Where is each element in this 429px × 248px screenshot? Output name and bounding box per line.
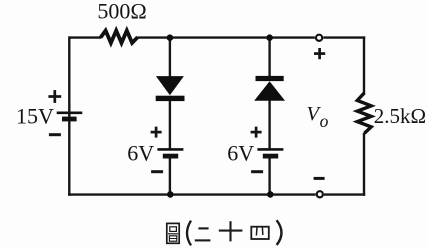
wire branch2 lower (6V to bottom) xyxy=(268,157,270,195)
diode D2 triangle (pointing up) xyxy=(255,82,284,100)
battery V3 6V short plate xyxy=(263,154,278,159)
node junction dot top branch1 xyxy=(167,34,174,41)
wire bottom-right segment xyxy=(324,193,365,195)
svg-text:6V: 6V xyxy=(227,141,254,166)
wire branch2 middle (D2 to 6V) xyxy=(268,100,270,149)
battery V3 6V long plate xyxy=(257,148,283,151)
resistor R1 500 ohm zigzag xyxy=(101,31,138,43)
caption right parenthesis xyxy=(277,220,282,245)
battery V3 plus sign xyxy=(251,127,262,138)
wire branch1 upper (node to D1) xyxy=(169,38,171,78)
caption character si (four) xyxy=(251,227,268,239)
wire top-left segment xyxy=(69,36,101,38)
wire top-right segment xyxy=(323,36,365,38)
output minus sign xyxy=(314,177,325,180)
svg-text:500Ω: 500Ω xyxy=(97,0,146,23)
wire right upper (top to 2.5k) xyxy=(363,36,365,93)
battery V2 6V long plate xyxy=(157,148,183,151)
wire right lower (2.5k to bottom) xyxy=(363,133,365,196)
battery V1 minus sign xyxy=(49,133,61,136)
output plus sign xyxy=(314,48,325,59)
wire bottom-left segment xyxy=(68,193,316,195)
diode D1 triangle (pointing down) xyxy=(157,77,183,95)
caption left parenthesis xyxy=(187,221,191,246)
output terminal circle bottom xyxy=(317,191,323,197)
svg-text:2.5kΩ: 2.5kΩ xyxy=(374,104,426,128)
diode D1 cathode bar xyxy=(156,96,185,101)
node junction dot top branch2 xyxy=(266,34,273,41)
caption character er (two) xyxy=(195,228,211,240)
battery V3 minus sign xyxy=(251,170,263,173)
diode D2 cathode bar (on top) xyxy=(256,76,284,81)
svg-text:o: o xyxy=(320,111,329,131)
wire top-middle segment xyxy=(137,36,315,38)
battery V1 15V short plate xyxy=(62,117,77,122)
node junction dot bottom branch2 xyxy=(267,191,274,198)
svg-text:6V: 6V xyxy=(127,141,154,166)
battery V1 15V long plate xyxy=(57,111,83,114)
wire branch1 middle (D1 to 6V) xyxy=(169,101,171,149)
output voltage label Vo xyxy=(307,103,329,131)
battery V2 6V short plate xyxy=(163,154,178,159)
svg-text:15V: 15V xyxy=(16,104,54,129)
output terminal circle top xyxy=(316,35,322,41)
battery V2 plus sign xyxy=(151,127,162,138)
wire branch1 lower (6V to bottom) xyxy=(169,157,171,195)
battery V2 minus sign xyxy=(151,170,163,173)
wire left lower (15V to bottom) xyxy=(68,114,70,196)
wire left upper (15V to top) xyxy=(68,36,70,111)
caption character shi (ten) xyxy=(219,221,243,241)
battery V1 plus sign xyxy=(48,90,61,103)
wire branch2 upper (node to D2) xyxy=(268,38,270,77)
node junction dot bottom branch1 xyxy=(167,191,174,198)
resistor R2 2.5k ohm vertical zigzag xyxy=(357,93,371,134)
caption character tu (figure) xyxy=(167,223,179,243)
